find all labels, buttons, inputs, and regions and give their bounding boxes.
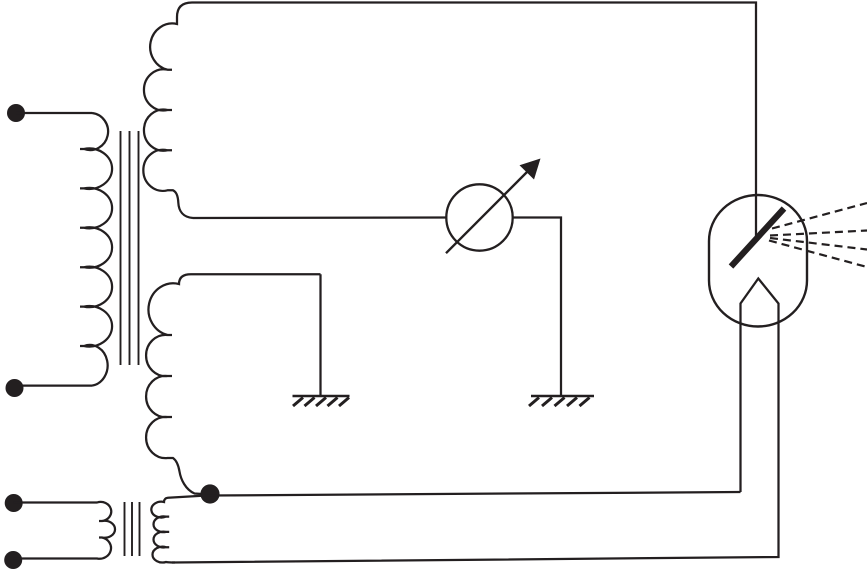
wire: primary bottom to terminal <box>15 384 93 386</box>
x-ray beam 3 <box>770 238 867 250</box>
transformer T2 primary winding <box>13 502 115 559</box>
x-ray tube V1 envelope <box>709 195 807 327</box>
wire: junction to tube cathode left leg <box>210 492 741 496</box>
transformer T1 primary winding <box>80 113 112 386</box>
wire: meter to right ground drop <box>513 218 561 396</box>
meter M1 arrow shaft <box>446 170 529 253</box>
x-ray tube V1 cathode and legs <box>172 279 779 563</box>
wire: HV top wire to tube anode <box>192 3 756 238</box>
x-ray beam 1 <box>772 203 867 229</box>
node: bottom-left terminal dot <box>6 379 24 397</box>
transformer T1 secondary lower winding <box>146 274 320 494</box>
x-ray tube V1 anode target <box>731 209 784 267</box>
transformer T1 core <box>121 131 139 365</box>
wire: lower secondary tap to left ground drop <box>319 274 321 395</box>
transformer T2 filament secondary winding <box>151 495 210 562</box>
meter M1 arrowhead <box>520 159 541 180</box>
ground symbol left <box>293 396 350 406</box>
transformer T1 secondary upper winding <box>143 3 193 219</box>
meter M1 body <box>446 184 512 250</box>
ground symbol right <box>529 396 594 406</box>
x-ray beam 2 <box>770 231 867 236</box>
node: top-left terminal dot <box>7 104 25 122</box>
node: filament terminal dot upper <box>5 494 23 512</box>
x-ray beam 4 <box>769 241 867 268</box>
wire: top-left terminal to primary <box>16 112 92 114</box>
transformer T2 core <box>125 502 140 556</box>
node: filament terminal dot lower <box>4 551 22 569</box>
node: junction dot <box>200 484 219 503</box>
wire: secondary mid-tap to meter <box>193 216 446 219</box>
